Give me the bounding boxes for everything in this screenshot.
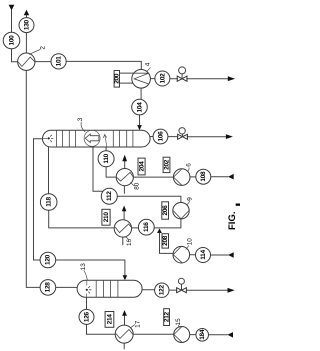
wire node 128 to column 13: [55, 286, 77, 288]
wire pump 6 to node 108: [190, 176, 196, 178]
svg-text:202: 202: [163, 159, 170, 170]
svg-text:116: 116: [143, 222, 150, 232]
node 118: [40, 194, 57, 211]
column 13 tray lines: [96, 280, 118, 297]
wire column 3 left down to node 120: [34, 139, 43, 260]
svg-text:80: 80: [133, 182, 140, 190]
wire HX80 bottom stub: [123, 186, 125, 194]
wire HX4 bottom to node 104: [140, 88, 142, 101]
node 112: [101, 188, 117, 204]
node 100: [3, 32, 20, 49]
wire feed inlet line: [12, 10, 18, 62]
wire pump 10 to node 114: [190, 254, 196, 256]
wire valve V3 to outlet arrow: [186, 289, 227, 291]
svg-text:17: 17: [134, 320, 141, 328]
outlet arrow (reverse style) at 254: [228, 252, 234, 257]
wire node 102 to valve V1: [170, 78, 178, 80]
outlet arrow (right) at 136: [226, 134, 233, 139]
pump P6: [173, 169, 190, 186]
label 10 leader: [186, 246, 189, 250]
svg-text:10: 10: [186, 238, 193, 246]
wire junction down to pump 10: [160, 233, 174, 253]
heat exchanger HX4: [132, 70, 151, 89]
figure title dash of FIG.-3: [236, 204, 241, 206]
outlet arrow (right) top product: [228, 76, 235, 81]
valve V2: [178, 134, 188, 139]
label 13 leader: [84, 271, 87, 280]
svg-text:114: 114: [200, 250, 207, 260]
node 114: [196, 248, 211, 263]
wire node 120 to column 13 top: [55, 260, 125, 276]
node 102: [155, 71, 170, 86]
label 3 leader: [81, 122, 85, 132]
wire node 104 into column 3: [139, 114, 141, 125]
wire node 112 to pump 9: [117, 196, 181, 202]
svg-text:102: 102: [159, 73, 166, 84]
column 3 vessel: [43, 130, 151, 147]
outlet arrow (reverse style) at 334: [227, 332, 233, 338]
svg-text:13: 13: [80, 263, 87, 271]
label 16 leader: [125, 237, 128, 241]
box 206: [162, 202, 169, 219]
inlet arrow (down): [9, 5, 15, 11]
column 3 thin up arrow: [103, 134, 107, 146]
svg-text:104: 104: [136, 102, 143, 113]
node 120: [40, 252, 56, 268]
svg-text:9: 9: [186, 197, 193, 201]
wire HX2 bottom long down to node 128: [26, 70, 40, 287]
wire column 3 right to node 106: [150, 136, 153, 138]
node 122: [155, 283, 169, 297]
wire HX4 right to node 102: [150, 78, 155, 80]
svg-text:112: 112: [106, 191, 113, 201]
column 3 tray lines left: [56, 130, 75, 147]
column 3 feed nozzle: [43, 138, 47, 140]
wire column 13 right to node 122: [142, 289, 154, 291]
outlet arrow 130 (up): [24, 10, 30, 16]
wire node 118 down to HX16: [49, 210, 114, 228]
wire column 3 bottom to node 112: [93, 147, 103, 191]
wire HX17 right to pump 15: [133, 333, 174, 335]
wire node 110 to HX80: [106, 167, 116, 177]
box 214: [105, 312, 114, 328]
wire HX2 right to node 101: [35, 61, 51, 63]
box 208: [162, 234, 169, 248]
node 106: [153, 129, 168, 144]
label 4 leader: [147, 68, 150, 72]
node 108: [196, 169, 211, 184]
svg-text:110: 110: [103, 153, 110, 163]
node 104: [132, 99, 148, 115]
svg-text:2: 2: [39, 46, 46, 50]
column 3 reflux feed circle: [84, 130, 100, 146]
node 126: [79, 309, 94, 324]
wire HX16 top arrow toward 112 line: [123, 211, 125, 219]
wire HX16 to node 116: [132, 227, 139, 229]
column 13 vessel: [77, 280, 142, 297]
pump P15: [174, 327, 190, 343]
arrow up from HX16: [122, 206, 127, 212]
svg-text:214: 214: [106, 314, 113, 325]
wire column 13 bottom to node 126: [86, 297, 88, 310]
heat exchanger HX2: [18, 53, 35, 70]
node 116: [138, 219, 154, 235]
heat exchanger HX80: [116, 169, 133, 186]
svg-text:106: 106: [157, 131, 164, 142]
wire node 126 down to HX17: [87, 324, 116, 334]
svg-text:101: 101: [56, 56, 63, 67]
wire column 3 bottom to node 110: [105, 147, 107, 151]
box 200: [114, 71, 119, 88]
column 13 internal pipe and nozzle: [86, 280, 88, 297]
wire HX17 bottom stub: [123, 343, 125, 349]
box 202: [163, 157, 170, 172]
label 9 leader: [187, 201, 190, 205]
svg-text:210: 210: [103, 212, 110, 223]
column 3 tray lines right: [113, 130, 133, 147]
svg-text:3: 3: [77, 117, 84, 121]
outlet arrow (reverse style) at 176: [228, 174, 234, 180]
svg-text:128: 128: [45, 282, 52, 293]
wire node 122 to valve V3: [169, 289, 177, 291]
arrow up from HX17: [122, 310, 127, 316]
svg-text:118: 118: [46, 197, 53, 207]
wire valve V1 to outlet arrow: [187, 78, 228, 80]
wire valve V2 to outlet arrow: [187, 136, 226, 138]
box 204: [138, 158, 145, 175]
label 2 leader: [29, 50, 40, 55]
svg-text:126: 126: [83, 311, 90, 322]
svg-text:FIG.: FIG.: [227, 212, 238, 230]
wire node 101 to HX4 top: [66, 61, 141, 69]
wire node 184 to outlet arrow: [208, 334, 227, 336]
wire pump 9 bottom to main line: [154, 219, 181, 228]
label 17 leader: [130, 325, 134, 328]
label 6 leader: [187, 168, 189, 172]
wire HX4 utility stubs to box 200: [119, 73, 133, 83]
valve V1: [177, 76, 187, 81]
node 110: [98, 151, 114, 167]
pump P9: [173, 203, 189, 219]
wire HX80 top arrow to column 3: [124, 161, 126, 168]
svg-text:184: 184: [199, 329, 206, 340]
svg-text:16: 16: [126, 239, 133, 247]
heat exchanger HX17: [115, 325, 133, 343]
svg-text:108: 108: [200, 171, 207, 182]
svg-text:4: 4: [144, 62, 151, 66]
wire node 108 to outlet arrow: [211, 176, 228, 178]
box 210: [102, 209, 110, 225]
svg-text:122: 122: [159, 285, 166, 296]
wire HX16 bottom stub: [122, 237, 124, 245]
svg-text:208: 208: [162, 235, 169, 246]
wire node 114 to outlet arrow: [211, 254, 229, 256]
feed arrow into column 3 top: [137, 125, 142, 130]
node 130: [19, 18, 34, 33]
wire pump 15 to node 184: [190, 334, 197, 336]
node 128: [40, 280, 56, 296]
wire column 3 bottom to node 118: [48, 147, 50, 194]
wire HX80 right to pump 6: [133, 176, 173, 178]
arrow up from HX80: [122, 155, 127, 162]
feed arrow into column 13 top: [123, 275, 128, 280]
svg-text:200: 200: [114, 73, 121, 84]
svg-text:130: 130: [23, 19, 30, 30]
node 184: [196, 329, 209, 342]
svg-text:120: 120: [45, 254, 52, 265]
svg-text:15: 15: [175, 318, 182, 326]
wire node 106 to valve V2: [168, 136, 178, 138]
svg-text:100: 100: [8, 35, 15, 46]
outlet arrow (right) at 290: [228, 288, 235, 293]
node 101: [51, 54, 66, 69]
valve V3: [177, 288, 187, 293]
wire HX2 top to node 130: [25, 33, 27, 54]
svg-text:206: 206: [162, 205, 169, 216]
svg-text:6: 6: [185, 163, 192, 167]
wire node 130 to outlet arrow: [26, 15, 28, 18]
label 80 leader: [130, 183, 134, 186]
pump P10: [173, 246, 190, 263]
box 212: [164, 309, 170, 326]
heat exchanger HX16: [114, 220, 131, 237]
column 3 hollow arrow: [85, 134, 99, 143]
label 15 leader: [178, 325, 179, 327]
junction arrow up at 159: [157, 228, 162, 233]
svg-text:212: 212: [164, 311, 171, 322]
wire HX17 top arrow toward column 13: [124, 316, 126, 325]
svg-text:204: 204: [138, 161, 145, 172]
